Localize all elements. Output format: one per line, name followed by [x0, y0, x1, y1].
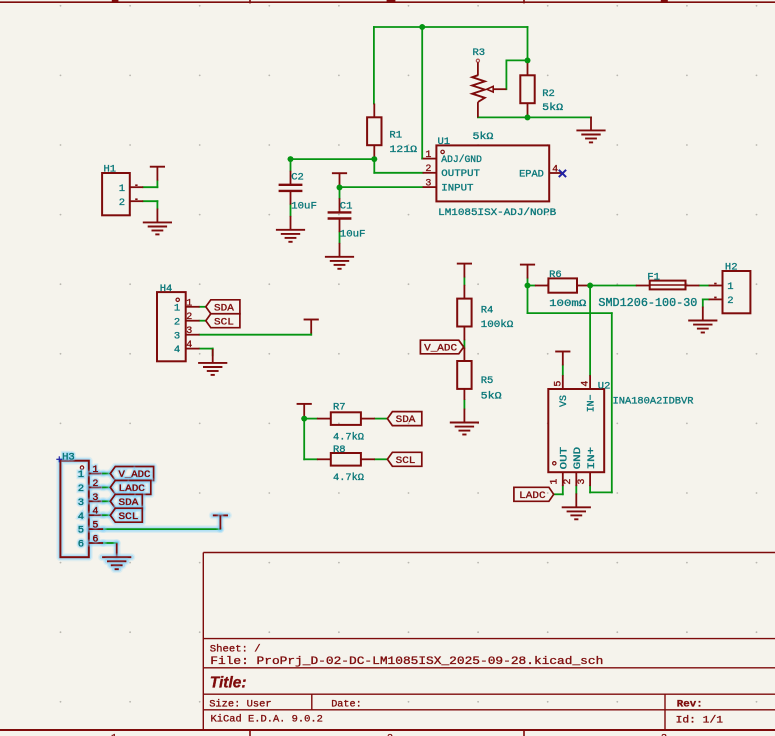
connector H1 body [102, 173, 130, 215]
power symbol at U2 VS [555, 352, 570, 366]
wire H3 pin1 stub [103, 470, 110, 478]
svg-text:1: 1 [92, 465, 98, 476]
junction R6 left [525, 283, 531, 289]
global label SDA at H3 (highlighted) [110, 494, 142, 509]
wire vertical to R2 top [527, 27, 529, 62]
svg-text:4: 4 [174, 344, 180, 356]
title block file text [210, 656, 603, 668]
svg-text:VS: VS [559, 395, 570, 407]
U2 value INA180A2IDBVR [613, 396, 695, 408]
svg-text:4: 4 [92, 507, 98, 518]
svg-text:1: 1 [550, 479, 561, 485]
global label SCL at H3 (highlighted) [110, 508, 142, 523]
svg-text:R4: R4 [481, 305, 494, 317]
svg-text:121Ω: 121Ω [389, 144, 417, 156]
title block outline [203, 553, 775, 731]
svg-text:1: 1 [174, 302, 180, 314]
R8 reference label [333, 444, 346, 456]
svg-text:5: 5 [92, 521, 98, 532]
svg-text:Title:: Title: [210, 674, 247, 691]
power symbol at H3 pin5 (highlighted) [213, 515, 228, 529]
svg-text:4: 4 [581, 381, 592, 387]
wire R4 bottom to R5 top (V_ADC node) [463, 340, 465, 347]
svg-text:SCL: SCL [119, 512, 139, 523]
svg-text:5: 5 [78, 525, 84, 537]
svg-text:1: 1 [425, 150, 431, 161]
wire C1 top stub [339, 187, 341, 198]
wire R3 wiper vertical [505, 60, 507, 89]
svg-text:SCL: SCL [396, 456, 416, 467]
wire top horizontal net [374, 26, 528, 28]
svg-text:H3: H3 [62, 452, 75, 464]
U1 value LM1085ISX-ADJ/NOPB [438, 207, 556, 219]
svg-text:F1: F1 [647, 271, 660, 283]
svg-text:5kΩ: 5kΩ [481, 391, 502, 403]
title block sheet id text [676, 714, 723, 726]
R2 value 5kΩ [542, 102, 563, 114]
resistor R2 [520, 62, 534, 118]
svg-text:R1: R1 [389, 129, 402, 141]
H4 pin1 indicator circle [176, 298, 179, 301]
U1 reference label [438, 136, 451, 148]
wire R6 left node down [527, 286, 529, 314]
U1 pin4 EPAD [519, 164, 561, 180]
resistor R6 (shunt) [535, 278, 590, 292]
U1 pin1 indicator circle [441, 150, 444, 153]
R4 reference label [481, 305, 494, 317]
H3 anchor cross [56, 456, 62, 462]
svg-text:Date:: Date: [331, 698, 362, 710]
R5 value 5kΩ [481, 391, 502, 403]
svg-text:2: 2 [174, 316, 180, 328]
wire R1 bottom down [373, 159, 375, 173]
C2 reference label [291, 172, 304, 184]
wire power to R6 left node [527, 279, 529, 286]
svg-text:OUT: OUT [560, 447, 571, 470]
H3 pin2 [78, 479, 103, 495]
svg-text:C2: C2 [291, 172, 304, 184]
svg-text:5kΩ: 5kΩ [542, 102, 563, 114]
svg-text:C1: C1 [340, 201, 353, 213]
U2 pin4 IN- [581, 375, 598, 412]
wire H3 pin5 to power (highlighted) [103, 525, 220, 533]
ground right of R2 [576, 117, 605, 143]
C2 value 10uF [291, 201, 317, 213]
connector H2 body [723, 271, 751, 313]
svg-text:3: 3 [78, 497, 84, 509]
junction R7 left [301, 416, 307, 422]
F1 value SMD1206-100-30 [598, 297, 697, 310]
svg-text:H2: H2 [725, 261, 738, 273]
H4 pin2 [174, 312, 200, 328]
svg-text:U2: U2 [598, 381, 611, 393]
junction C2 top [288, 156, 294, 162]
svg-text:10uF: 10uF [340, 229, 366, 241]
wire R7 node down to R8 [304, 419, 317, 460]
power symbol at H4 pin3 [304, 320, 319, 334]
wire power to U2 pin5 VS [562, 365, 564, 375]
wire C1 bottom to ground [339, 232, 341, 243]
svg-text:EPAD: EPAD [519, 169, 544, 180]
svg-text:R7: R7 [333, 402, 346, 414]
power symbol at R7 [297, 404, 312, 418]
svg-text:Size: User: Size: User [209, 698, 271, 710]
svg-text:GND: GND [573, 447, 584, 470]
svg-text:6: 6 [78, 539, 84, 551]
current-sense amp U2 body [548, 389, 604, 472]
ground at U2 pin2 [562, 493, 591, 519]
wire R7 right to SDA label [375, 418, 388, 420]
global label SDA at H4 [206, 300, 240, 315]
potentiometer R3 [472, 59, 506, 117]
power symbol at R6 left [520, 265, 535, 279]
svg-text:R6: R6 [549, 269, 562, 281]
op-amp/regulator U1 body [436, 145, 549, 201]
H1 pin1 [119, 183, 144, 195]
H2 pin1 [709, 281, 734, 293]
svg-text:SMD1206-100-30: SMD1206-100-30 [598, 297, 697, 310]
svg-text:100kΩ: 100kΩ [481, 319, 514, 331]
R7 reference label [333, 402, 346, 414]
svg-text:1: 1 [186, 298, 192, 309]
svg-text:2: 2 [92, 479, 98, 490]
R6 value 100mΩ [549, 298, 586, 310]
ground at H1 pin2 [143, 209, 172, 235]
R3 reference label [473, 47, 486, 59]
wire to U1 pin2 OUTPUT [374, 172, 422, 174]
R5 reference label [481, 375, 494, 387]
U1 pin1 ADJ/GND [423, 150, 482, 166]
title block sheet text [210, 644, 261, 656]
power symbol at C1 [332, 173, 347, 187]
svg-text:4: 4 [552, 164, 558, 175]
resistor R1 [367, 104, 381, 160]
title block Title label [210, 674, 247, 691]
global label V_ADC [420, 340, 463, 355]
svg-text:2: 2 [425, 164, 431, 175]
svg-text:100mΩ: 100mΩ [549, 298, 586, 310]
svg-text:Id: 1/1: Id: 1/1 [676, 714, 723, 726]
resistor R4 [457, 285, 471, 341]
ground at C2 [276, 216, 305, 242]
svg-text:OUTPUT: OUTPUT [441, 169, 480, 180]
wire C2 to R1 bottom [291, 158, 375, 160]
ground at H4 pin4 [198, 349, 227, 375]
svg-text:2: 2 [119, 197, 125, 209]
F1 reference label [647, 271, 660, 283]
H3 pin4 [78, 507, 103, 523]
junction R6 right [587, 283, 593, 289]
global label LADC at U2 [514, 487, 554, 502]
wire R5 bottom to ground [463, 400, 465, 409]
ground at H3 pin6 (highlighted) [102, 543, 131, 569]
wire C2 top stub [290, 159, 292, 171]
svg-text:File: ProPrj_D-02-DC-LM1085ISX: File: ProPrj_D-02-DC-LM1085ISX_2025-09-2… [210, 656, 603, 668]
H2 reference label [725, 261, 738, 273]
svg-text:R5: R5 [481, 375, 494, 387]
svg-text:INPUT: INPUT [441, 183, 473, 194]
ground at H2 pin2 [688, 307, 717, 333]
power symbol at R4 top [457, 264, 472, 278]
junction dots overlay [288, 24, 593, 421]
wire H3 pin2 stub [103, 483, 110, 491]
svg-text:4: 4 [186, 340, 192, 351]
global label SDA at R7 [387, 412, 421, 427]
svg-text:INA180A2IDBVR: INA180A2IDBVR [613, 396, 695, 408]
R7 value 4.7kΩ [333, 432, 364, 444]
svg-text:2: 2 [78, 483, 84, 495]
svg-text:1: 1 [119, 183, 125, 195]
H4 pin4 [174, 340, 200, 356]
wire U2 pin2 GND to ground [575, 486, 577, 493]
wire H1 pin2 to ground [143, 201, 157, 208]
H4 reference label [160, 283, 173, 295]
resistor R7 [317, 412, 375, 425]
R3 value 5kΩ [473, 131, 494, 143]
title block rev label [677, 698, 703, 710]
svg-text:1: 1 [78, 469, 84, 481]
wire H4 pin4 to ground [200, 349, 213, 356]
resistor R8 [317, 453, 375, 466]
svg-text:R3: R3 [473, 47, 486, 59]
svg-text:U1: U1 [438, 136, 451, 148]
U2 pin5 VS [553, 375, 570, 407]
R2 reference label [542, 88, 555, 100]
wire R3/R2 bottom to ground [478, 116, 591, 118]
H3 reference label [62, 452, 75, 464]
wire R7 left [304, 418, 317, 420]
R6 reference label [549, 269, 562, 281]
wire H1 pin1 to power [143, 181, 157, 188]
no-connect X at U1 pin4 [559, 170, 566, 177]
wire IN+ long vertical [611, 313, 613, 492]
svg-text:3: 3 [577, 479, 588, 485]
svg-text:H4: H4 [160, 283, 173, 295]
wire to U2 pin3 IN+ [590, 486, 612, 492]
wire H2 pin2 to ground [703, 299, 709, 306]
wire H4 pin3 to power [200, 333, 312, 334]
U2 pin1 OUT [550, 447, 571, 486]
C1 value 10uF [340, 229, 366, 241]
svg-text:2: 2 [563, 479, 574, 485]
svg-text:10uF: 10uF [291, 201, 317, 213]
connector H3 body (selected) [60, 461, 88, 558]
U1 pin3 INPUT [423, 179, 474, 195]
svg-text:V_ADC: V_ADC [424, 344, 457, 355]
svg-text:5kΩ: 5kΩ [473, 131, 494, 143]
R4 value 100kΩ [481, 319, 514, 331]
H3 pin1 indicator circle [80, 466, 83, 469]
svg-text:4.7kΩ: 4.7kΩ [333, 432, 364, 444]
wire R8 right to SCL label [375, 458, 388, 460]
junction R1 bottom [371, 156, 377, 162]
svg-text:R8: R8 [333, 444, 346, 456]
U2 pin2 GND [563, 447, 584, 486]
wire vertical to R1 top [373, 27, 375, 104]
svg-text:3: 3 [425, 179, 431, 190]
H4 pin1 [174, 298, 200, 314]
svg-text:Rev:: Rev: [677, 698, 703, 710]
svg-text:3: 3 [174, 330, 180, 342]
connector H4 body [157, 292, 186, 361]
wire H4 pin2 to SCL label [200, 320, 206, 322]
H1 reference label [104, 163, 117, 175]
junction top wire [419, 24, 425, 30]
wire H3 pin4 stub [103, 511, 110, 519]
R1 reference label [389, 129, 402, 141]
H3 pin6 [78, 535, 103, 551]
junction R2 top [525, 58, 531, 64]
svg-text:1: 1 [727, 281, 733, 293]
U2 pin1 indicator circle [553, 462, 556, 465]
svg-text:KiCad E.D.A. 9.0.2: KiCad E.D.A. 9.0.2 [211, 713, 323, 725]
H3 pin5 [78, 521, 103, 537]
power symbol at H1 pin1 [150, 167, 165, 181]
svg-text:R2: R2 [542, 88, 555, 100]
svg-text:LADC: LADC [519, 491, 545, 502]
wire F1 right to H2 pin1 [699, 285, 708, 287]
wire H3 pin3 stub [103, 497, 110, 505]
U2 pin3 IN+ [577, 447, 598, 486]
wire vertical to U1 pin1 [421, 27, 423, 159]
H3 pin3 [78, 493, 103, 509]
svg-text:IN+: IN+ [587, 447, 598, 470]
wire H3 pin6 to ground (highlighted) [103, 539, 117, 547]
junction R2 bottom [525, 115, 531, 121]
wire R6 left stub [528, 285, 535, 287]
title block date text [331, 698, 362, 710]
svg-text:5: 5 [553, 381, 564, 387]
U2 reference label [598, 381, 611, 393]
global label SCL at R8 [387, 452, 421, 467]
H3 pin1 [78, 465, 103, 481]
capacitor C1 [328, 198, 352, 232]
svg-text:3: 3 [92, 493, 98, 504]
H1 pin2 [119, 197, 144, 209]
R8 value 4.7kΩ [333, 472, 364, 484]
global label LADC at H3 (highlighted) [110, 480, 151, 495]
wire U2 pin1 OUT to LADC label [554, 486, 563, 494]
wire R6 right to F1 left [590, 285, 636, 287]
U1 pin2 OUTPUT [423, 164, 480, 180]
wire R6 right node to U2 pin4 IN- [589, 286, 591, 376]
wire R3 wiper horizontal [506, 59, 527, 61]
wire power to R7 node [303, 417, 305, 420]
svg-text:SDA: SDA [396, 415, 416, 426]
svg-text:ADJ/GND: ADJ/GND [441, 154, 482, 166]
fuse F1 [636, 281, 700, 290]
svg-text:4: 4 [78, 511, 84, 523]
wire C2 bottom to ground [290, 205, 292, 216]
svg-text:6: 6 [92, 535, 98, 546]
svg-text:IN−: IN− [587, 394, 598, 412]
capacitor C2 [279, 171, 303, 205]
resistor R5 [457, 348, 471, 400]
ground at R5 bottom [450, 409, 479, 435]
svg-text:4.7kΩ: 4.7kΩ [333, 472, 364, 484]
svg-text:Sheet: /: Sheet: / [210, 644, 261, 656]
H2 pin2 [709, 295, 734, 307]
svg-text:2: 2 [727, 295, 733, 307]
wire power to R4 top [463, 278, 465, 285]
C1 reference label [340, 201, 353, 213]
wire C1 to U1 pin3 INPUT [340, 186, 423, 188]
svg-text:3: 3 [186, 326, 192, 337]
H4 pin3 [174, 326, 200, 342]
svg-text:SDA: SDA [214, 303, 234, 314]
svg-text:2: 2 [186, 312, 192, 323]
ground at C1 [325, 243, 354, 269]
svg-text:LM1085ISX-ADJ/NOPB: LM1085ISX-ADJ/NOPB [438, 207, 556, 219]
svg-text:SCL: SCL [214, 317, 234, 328]
junction C1 top [337, 185, 343, 191]
wire H4 pin1 to SDA label [200, 306, 206, 308]
wire across to IN+ column [528, 312, 612, 314]
R1 value 121Ω [389, 144, 417, 156]
title block size text [209, 698, 271, 710]
title block kicad version text [211, 713, 323, 725]
svg-text:H1: H1 [104, 163, 117, 175]
global label V_ADC at H3 (highlighted) [110, 467, 153, 482]
global label SCL at H4 [206, 314, 240, 329]
